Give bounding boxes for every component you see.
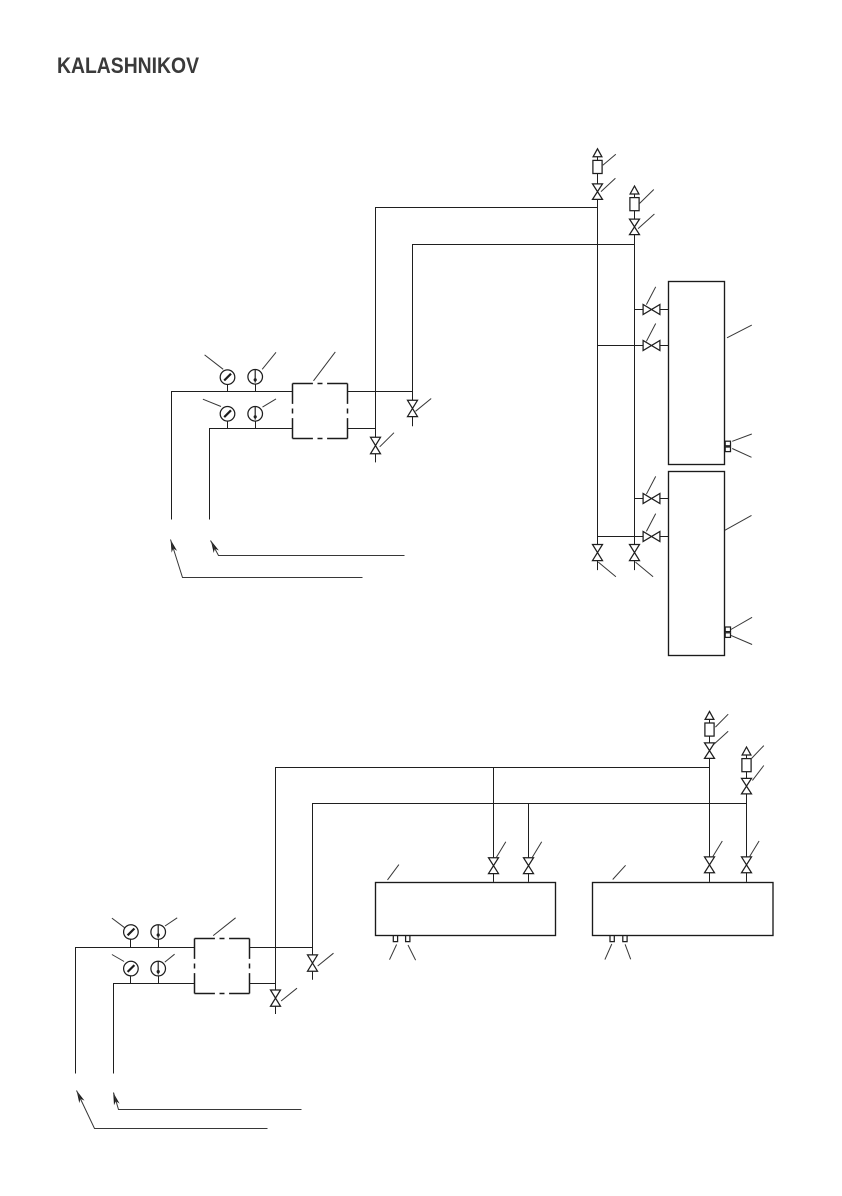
leader line to AV1 valve	[601, 178, 615, 191]
flow arrow leader for return pipe	[211, 541, 405, 556]
wire drop1 from run1B	[493, 767, 495, 858]
wire drop1 to unitA	[493, 874, 495, 882]
leader line to tank 2	[725, 515, 752, 530]
stem AV2 body to valve	[634, 211, 636, 219]
leader line unit A drain right	[408, 945, 416, 960]
fitting pair on tank2 right edge	[725, 627, 730, 637]
flow arrow leader for supply pipe B	[77, 1091, 268, 1129]
stem AV2 valve to run2	[634, 235, 636, 245]
vent valve AV2	[630, 219, 640, 235]
leader line to valve V1	[416, 399, 432, 412]
thermometer T4	[151, 961, 166, 976]
leader line to unit A	[388, 865, 399, 880]
drain valve D2 bottom of R2	[630, 545, 640, 561]
shutoff valve C1	[489, 858, 499, 874]
leader line to valve B1	[646, 287, 655, 305]
gauge stem thermometer T1	[255, 384, 257, 392]
stub below valve V3	[312, 971, 314, 980]
shutoff valve B1	[643, 305, 660, 315]
leader line to AV2 valve	[638, 214, 654, 229]
pressure gauge P4	[124, 961, 139, 976]
pressure gauge P1	[220, 370, 235, 385]
gauge stem manometer P3	[130, 939, 132, 947]
drain valve V3 below riser xB	[308, 955, 318, 971]
shutoff valve B4	[643, 532, 660, 542]
thermometer T1	[248, 370, 263, 385]
wire box bottom port to riser	[347, 428, 375, 430]
leader line unit B drain right	[625, 944, 631, 959]
leader line to P2	[203, 399, 221, 406]
vent valve AV3	[705, 743, 715, 759]
flow arrow leader for supply pipe	[171, 540, 363, 578]
leader line unit A drain left	[390, 945, 397, 960]
wire riser xB from run2B down	[312, 803, 314, 955]
stub below valve V4	[275, 1006, 277, 1014]
wire branch4 from R1	[598, 536, 644, 538]
leader line to unit B	[613, 865, 626, 879]
leader line to drain D2	[636, 562, 654, 577]
wire run1 horizontal y207	[375, 207, 598, 209]
stub below valve V2	[375, 454, 377, 463]
wire supply pipe upper-left (pipe to box, turns down)	[172, 392, 293, 520]
air vent AV2 (triangle+body)	[630, 186, 639, 211]
leader line to valve B2	[646, 324, 655, 342]
drain fitting pair below unit A	[393, 936, 410, 942]
leader line to valve V4	[281, 988, 297, 1001]
wire branch2 from R1	[598, 345, 644, 347]
gauge stem thermometer T2	[255, 421, 257, 428]
thermometer T2	[248, 407, 263, 422]
leader line to T1	[262, 352, 276, 369]
air vent AV1 (triangle+body)	[593, 149, 602, 174]
drain fitting pair below unit B	[610, 936, 627, 942]
wire run2B horizontal y803	[312, 803, 746, 805]
wire boxB top port to riser	[250, 947, 313, 949]
shutoff valve B2	[643, 341, 660, 351]
leader line to drain D1	[598, 562, 616, 577]
leader line to valve B3	[646, 476, 655, 494]
wire riser x375 from run1 down	[375, 207, 377, 437]
gauge stem manometer P4	[130, 976, 132, 983]
wire riser x412 from run2 down	[412, 244, 414, 400]
logo KALASHNIKOV	[57, 53, 199, 78]
leader line to T3	[165, 918, 177, 926]
stem AV1 body to valve	[597, 174, 599, 184]
leader line to valve C1	[496, 842, 506, 858]
control unit box B (dash-dot)	[195, 939, 250, 994]
wire return pipe lower-left B	[114, 984, 195, 1074]
wire drop3 to unitB	[709, 873, 711, 882]
leader line to tank2 fitting lower	[731, 635, 752, 644]
pressure gauge P3	[124, 925, 139, 940]
leader line to P1	[205, 355, 224, 369]
svg-text:KALASHNIKOV: KALASHNIKOV	[57, 53, 199, 78]
shutoff valve C4	[742, 857, 752, 873]
gauge stem thermometer T4	[158, 976, 160, 983]
stub below drain D2	[634, 561, 636, 571]
leader line to tank1 fitting lower	[732, 449, 751, 458]
wire boxB bottom port right	[250, 983, 276, 985]
stem AV4 body to valve	[746, 772, 748, 779]
leader line to control unit box	[314, 352, 336, 381]
shutoff valve C2	[524, 858, 534, 874]
wire riser R2 x634 down	[634, 244, 636, 544]
wire branch3 from R2	[635, 498, 644, 500]
wire box top port to riser	[347, 391, 412, 393]
wire drop2 to unitA	[528, 874, 530, 882]
gauge stem manometer P1	[227, 385, 229, 392]
wire supply pipe upper-left B (pipe to box, turns down)	[76, 948, 195, 1074]
leader line to valve C4	[749, 841, 759, 857]
stem AV3 valve to run1B	[709, 758, 711, 767]
leader line to valve B4	[646, 514, 655, 532]
wire branch1 from R2	[635, 309, 644, 311]
fitting pair on tank1 right edge	[725, 441, 730, 451]
wire drop2 from run2B	[528, 803, 530, 858]
drain valve V2 below riser x375	[371, 437, 381, 454]
fan coil unit B rectangle	[593, 883, 774, 936]
wire branch2 to tank1	[660, 345, 669, 347]
shutoff valve C3	[705, 857, 715, 873]
wire riser xA from run1B down	[275, 767, 277, 990]
leader line to valve C3	[712, 841, 722, 857]
leader line to AV4 body	[752, 746, 764, 759]
thermometer T3	[151, 925, 166, 940]
drain valve D1 bottom of R1	[593, 545, 603, 561]
leader line unit B drain left	[605, 944, 612, 960]
leader line to AV4 valve	[752, 766, 763, 781]
wire return pipe lower-left (pipe to box, turns down)	[210, 429, 293, 520]
air vent AV3 (triangle+body)	[705, 711, 714, 736]
wire drop4 from run2B	[746, 803, 748, 857]
leader line to AV3 body	[715, 714, 728, 727]
wire branch3 to tank2	[660, 498, 669, 500]
wire branch1 to tank1	[660, 309, 669, 311]
wire drop3 from run1B	[709, 767, 711, 857]
leader line to valve C2	[532, 842, 542, 858]
vent valve AV4	[742, 778, 752, 794]
shutoff valve B3	[643, 494, 660, 504]
stem AV1 valve to run1	[597, 199, 599, 207]
leader line to P3	[112, 918, 125, 928]
vent valve AV1	[593, 184, 603, 200]
leader line to control unit box B	[213, 918, 235, 936]
stem AV4 valve to run2B	[746, 794, 748, 803]
flow arrow leader for return pipe B	[113, 1093, 301, 1110]
tank unit 1 rectangle	[669, 282, 725, 465]
stub below drain D1	[597, 561, 599, 571]
leader line to AV3 valve	[714, 731, 728, 744]
gauge stem manometer P2	[227, 421, 229, 428]
leader line to tank 1	[727, 325, 752, 338]
stem AV3 body to valve	[709, 736, 711, 743]
wire branch4 to tank2	[660, 536, 669, 538]
wire run2 horizontal y244	[412, 244, 635, 246]
leader line to P4	[112, 955, 124, 962]
leader line to AV2 body	[640, 190, 654, 204]
leader line to T4	[165, 954, 175, 962]
wire riser R1 x597 down	[597, 207, 599, 544]
leader line to tank1 fitting upper	[732, 434, 752, 441]
stub below valve V1	[412, 417, 414, 427]
control unit box (dash-dot)	[293, 384, 348, 439]
leader line to AV1 body	[603, 154, 616, 165]
wire run1B horizontal y767	[276, 767, 710, 769]
fan coil unit A rectangle	[376, 883, 556, 936]
leader line to valve V2	[380, 433, 394, 447]
gauge stem thermometer T3	[158, 939, 160, 947]
wire drop4 to unitB	[746, 873, 748, 882]
leader line to tank2 fitting upper	[731, 617, 752, 629]
leader line to valve V3	[318, 953, 334, 966]
leader line to T2	[263, 399, 277, 407]
drain valve V1 below riser x412	[408, 400, 418, 416]
tank unit 2 rectangle	[669, 472, 725, 656]
drain valve V4 below riser xA	[271, 990, 281, 1006]
pressure gauge P2	[220, 407, 235, 422]
air vent AV4 (triangle+body)	[742, 747, 751, 772]
